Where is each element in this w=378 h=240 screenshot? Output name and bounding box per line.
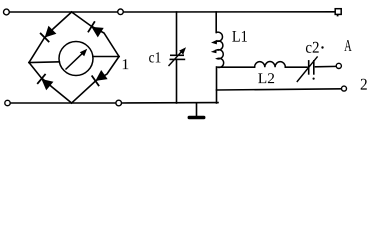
capacitor c1 trimmer arrow: [169, 51, 183, 67]
capacitor c1 bottom plate: [170, 58, 186, 60]
wire bottom bus right segment: [122, 102, 218, 104]
capacitor c2 trimmer arrow: [297, 56, 318, 82]
diode D1 (top-left arm, conducts T to L): [40, 25, 57, 42]
inductor L1 knot lower: [211, 49, 217, 53]
label c1: [149, 52, 160, 62]
diode D2 (top-right arm, conducts R to T): [88, 21, 104, 38]
wire meter left lead: [29, 61, 59, 64]
meter needle: [66, 53, 84, 70]
inductor L1 coil (4 loops, bulge right): [216, 32, 223, 67]
terminal top-middle: [118, 9, 124, 15]
wire tank to L2: [218, 66, 255, 68]
wire c2 to terminal A: [316, 65, 337, 67]
label 1: [123, 59, 129, 69]
wire L2 to c2: [285, 66, 307, 68]
inductor L1 knot arrow upper: [211, 40, 217, 45]
label L1: [232, 31, 247, 42]
terminal 2: [342, 86, 347, 91]
diode D4 (bottom-right arm, conducts R to B): [92, 69, 108, 86]
capacitor c1 top plate: [170, 54, 184, 56]
label c2: [306, 42, 319, 53]
wire ground stub: [196, 103, 198, 116]
wire bridge arm top-right: [72, 12, 119, 57]
terminal top-right (small square connector): [335, 9, 341, 15]
label c2 dot: [321, 46, 323, 48]
terminal bottom-middle: [116, 100, 122, 106]
galvanometer meter 1 (circle): [59, 42, 93, 76]
wire L1 bottom lead: [216, 67, 218, 103]
capacitor c2 speck artifact: [313, 78, 315, 80]
wire L1 top lead: [215, 12, 217, 33]
label 2: [361, 79, 367, 90]
diode D3 (bottom-left arm, conducts B to L): [37, 74, 54, 91]
terminal A: [336, 63, 341, 68]
wire top bus left segment: [9, 11, 117, 13]
wire bottom bus left segment: [10, 102, 116, 104]
terminal bottom-left: [5, 100, 10, 105]
wire c1 branch lower: [176, 60, 178, 104]
capacitor c2 left plate: [308, 60, 310, 75]
label L2: [258, 73, 274, 83]
capacitor c2 right plate: [313, 60, 315, 75]
wire meter right lead: [93, 56, 119, 58]
meter needle arrowhead: [80, 49, 87, 57]
inductor L2 coil (3 humps above wire): [255, 62, 286, 68]
wire bridge arm top-left: [29, 12, 72, 63]
wire c1 branch upper: [176, 12, 178, 55]
label A: [344, 40, 351, 51]
terminal top-left: [4, 9, 10, 15]
wire branch to terminal 2: [217, 89, 342, 90]
wire top bus right segment: [123, 11, 335, 13]
ground symbol bar: [188, 116, 206, 119]
wire bridge arm bottom-right: [72, 57, 119, 104]
wire bridge arm bottom-left: [29, 63, 72, 104]
